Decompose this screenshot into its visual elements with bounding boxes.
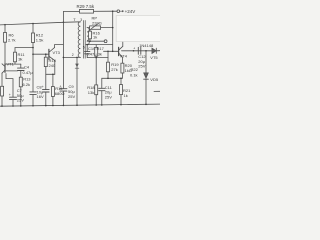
resistor R14 — [45, 54, 47, 57]
capacitor C12 — [138, 47, 141, 54]
svg-text:+: + — [133, 47, 135, 51]
svg-text:R29 7.5k: R29 7.5k — [77, 4, 95, 9]
label R16 — [93, 30, 101, 39]
resistor R16 — [89, 29, 91, 31]
resistor R29 — [80, 9, 94, 13]
terminal +24V — [117, 10, 120, 13]
diode VD5 — [145, 51, 147, 73]
transformer core — [84, 21, 86, 59]
svg-text:13k: 13k — [88, 90, 94, 95]
diode VD4 1N4148 — [152, 48, 156, 54]
label C10 R17 — [87, 46, 105, 56]
wire output stub — [154, 90, 160, 92]
svg-text:R13: R13 — [23, 77, 31, 82]
resistor R13 — [19, 77, 22, 87]
label +24V — [120, 10, 124, 12]
label R19 — [111, 62, 119, 72]
wire base link — [5, 63, 21, 65]
svg-text:16V: 16V — [37, 94, 44, 99]
wire R11 top link — [15, 47, 33, 49]
capacitor C5 — [45, 74, 47, 89]
label C11 — [105, 85, 113, 100]
wire VT1 to C7 — [6, 74, 13, 98]
wire divider link — [102, 77, 121, 79]
diode VD6 — [75, 64, 79, 68]
wire VT1 emitter to lower resistor — [1, 73, 3, 86]
wire vertical from +24V node — [112, 11, 114, 51]
svg-text:6.2k: 6.2k — [23, 82, 31, 87]
svg-text:0.47μ 3k: 0.47μ 3k — [87, 52, 102, 57]
svg-text:VD5: VD5 — [150, 77, 159, 82]
resistor R11 — [14, 48, 16, 53]
label C4 — [23, 65, 34, 76]
resistor R21 — [120, 78, 122, 84]
svg-text:25V: 25V — [105, 94, 112, 99]
transistor VT3 — [48, 49, 50, 59]
wire transformer pin2 — [63, 56, 80, 58]
label C12 — [133, 47, 146, 69]
label C8 — [37, 85, 44, 100]
label R14 — [49, 58, 57, 68]
label R12 — [36, 33, 44, 43]
transistor VT1 — [4, 64, 6, 73]
label R18 — [87, 85, 95, 95]
wire ground return — [76, 57, 78, 105]
svg-text:+24V: +24V — [125, 9, 136, 14]
resistor R6 — [4, 25, 6, 33]
resistor R20 — [121, 63, 124, 73]
svg-text:VT1: VT1 — [7, 62, 15, 67]
label R6 — [8, 33, 16, 43]
svg-text:2.7k: 2.7k — [8, 38, 16, 43]
capacitor C7 — [10, 97, 17, 99]
label R13 — [23, 77, 32, 87]
label R20 — [125, 63, 133, 73]
svg-text:C10 R17: C10 R17 — [88, 46, 105, 51]
resistor R12 — [32, 24, 34, 33]
svg-text:27k: 27k — [111, 67, 117, 72]
label R21 — [123, 88, 131, 98]
wire emitter bottom link — [46, 73, 55, 75]
svg-text:3: 3 — [80, 18, 82, 22]
label RP — [92, 15, 102, 25]
svg-text:25V: 25V — [138, 63, 145, 68]
label R15 — [55, 86, 65, 96]
svg-text:C4: C4 — [24, 65, 30, 70]
svg-text:5: 5 — [83, 46, 85, 50]
wire main rail vertical — [62, 22, 64, 88]
svg-text:0.47μ: 0.47μ — [23, 70, 34, 75]
resistor R19 — [107, 51, 109, 62]
wire VT3 base — [33, 53, 49, 55]
capacitor C4 — [20, 64, 22, 68]
svg-text:1k: 1k — [93, 35, 97, 40]
wire feedback node — [87, 57, 108, 59]
svg-text:+: + — [9, 93, 11, 97]
svg-text:25V: 25V — [68, 94, 75, 99]
label C7 — [9, 88, 24, 103]
resistor R10 — [1, 86, 4, 96]
svg-text:0.1k: 0.1k — [130, 73, 138, 78]
transformer T primary winding — [78, 22, 80, 58]
wire bottom bus — [0, 104, 160, 106]
wire VT4 base line — [104, 50, 119, 52]
white patch rectangle — [116, 16, 162, 42]
svg-text:240: 240 — [49, 63, 56, 68]
wire +24V line — [63, 10, 117, 12]
wire secondary mid tap — [87, 40, 104, 42]
transistor VT4 — [118, 47, 120, 55]
wire output line — [122, 50, 152, 52]
capacitor C11 — [101, 78, 103, 88]
svg-text:25V: 25V — [17, 98, 24, 103]
label C9 — [60, 84, 76, 99]
wire top bus — [0, 22, 80, 25]
svg-text:+: + — [42, 85, 44, 89]
terminal feedback — [104, 40, 107, 43]
svg-text:1k: 1k — [124, 93, 128, 98]
resistor R18 — [95, 58, 97, 85]
resistor R15 — [52, 74, 54, 86]
capacitor C9 — [60, 89, 67, 91]
svg-text:+: + — [60, 85, 62, 89]
svg-text:2: 2 — [72, 53, 74, 57]
wire emitter link — [6, 70, 18, 72]
wire riser to +24V line — [62, 12, 64, 23]
svg-text:220Ω: 220Ω — [92, 20, 102, 25]
svg-text:VT5: VT5 — [150, 55, 158, 60]
svg-text:VT4: VT4 — [120, 54, 128, 59]
potentiometer RP — [87, 27, 90, 29]
node bottom junctions — [1, 27, 147, 107]
svg-text:1N4148: 1N4148 — [139, 43, 154, 48]
svg-text:1.5k: 1.5k — [36, 38, 44, 43]
resistor R17 — [95, 45, 97, 48]
wire secondary lower tap — [86, 44, 113, 46]
svg-text:680Ω: 680Ω — [55, 91, 65, 96]
node top bus junctions — [4, 10, 113, 25]
label R11 — [18, 52, 26, 62]
svg-text:3k: 3k — [18, 57, 22, 62]
capacitor C10 — [86, 45, 88, 52]
capacitor C8 — [30, 92, 37, 95]
svg-text:VT3: VT3 — [53, 50, 61, 55]
label R22 — [130, 67, 139, 78]
transformer secondary winding — [87, 28, 89, 45]
